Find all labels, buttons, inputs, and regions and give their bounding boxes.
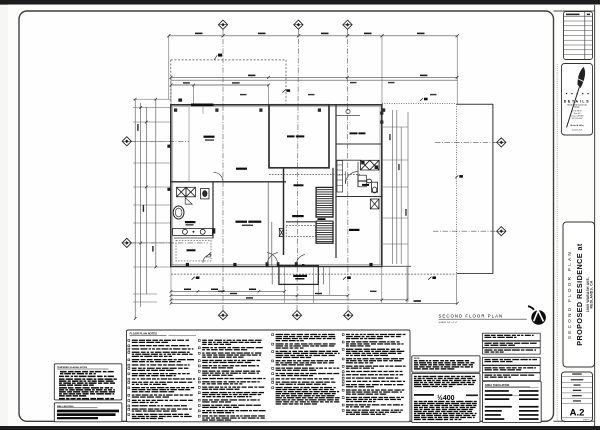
master bath wall — [336, 143, 382, 145]
bed5 closet line — [188, 107, 190, 182]
exterior wall left — [170, 104, 172, 267]
gridline C — [347, 29, 350, 310]
corridor door arc — [345, 172, 357, 184]
washer dryer — [358, 175, 369, 187]
wall backing box — [54, 403, 122, 422]
gridline F right — [435, 141, 497, 143]
svg-text:A.2: A.2 — [570, 408, 585, 419]
header beam mark on top wall — [191, 104, 214, 107]
master bath label — [185, 221, 196, 223]
misc dim labels — [240, 94, 247, 95]
right balcony outer wall — [492, 104, 494, 274]
interior dim chains — [392, 110, 394, 264]
right balcony top edge — [457, 103, 493, 105]
bath2 toilet — [372, 182, 378, 193]
exterior wall right — [381, 104, 383, 266]
gridline G right — [433, 230, 497, 232]
svg-text:2: 2 — [564, 419, 565, 421]
tempered glazing notes box — [54, 364, 122, 400]
svg-text:SECOND FLOOR PLAN: SECOND FLOOR PLAN — [439, 313, 504, 318]
roof outline dashed — [171, 59, 286, 61]
top dimension drops — [168, 36, 170, 99]
walk-in closet dashed — [176, 240, 211, 261]
interior corridor wall — [171, 181, 286, 183]
exterior wall bottom — [170, 266, 382, 268]
cabinet x-boxes — [361, 160, 380, 170]
svg-text:SHEETS: SHEETS — [583, 419, 589, 421]
balcony door jambs — [266, 262, 269, 266]
svg-text:951-555-2525: 951-555-2525 — [572, 130, 583, 132]
toilet — [201, 188, 209, 199]
bath partition wall — [212, 182, 214, 238]
wic label — [187, 249, 196, 251]
left dimension lines — [134, 99, 136, 319]
svg-text:Design: Design — [574, 107, 579, 109]
balcony drop lines — [317, 284, 319, 295]
notes column 3 — [272, 334, 340, 405]
exterior wall top — [170, 104, 382, 106]
window markers — [174, 108, 177, 111]
sheet title box — [563, 222, 595, 367]
bottom black bar — [0, 426, 600, 430]
bath2 sink oval — [367, 179, 372, 183]
wall spec note boxes — [483, 357, 541, 380]
balcony door arcs — [267, 253, 278, 264]
mstr bath counter — [336, 115, 360, 117]
svg-text:PROPOSED RESIDENCE at: PROPOSED RESIDENCE at — [575, 243, 584, 346]
notes column 1 — [128, 340, 195, 420]
vanity double sink — [173, 228, 216, 235]
bath tub oval — [173, 206, 184, 219]
right wing wall — [335, 105, 337, 258]
8ft labels — [287, 89, 291, 92]
svg-text:(951) 555-0157: (951) 555-0157 — [572, 118, 583, 120]
roofline dotted top — [382, 103, 457, 105]
grid diamonds — [218, 20, 227, 29]
hall dashed line — [269, 174, 360, 176]
hall door arc — [214, 172, 224, 182]
attic access dashed — [286, 226, 315, 237]
second dimension lines — [171, 76, 457, 78]
bath2 wall — [336, 196, 382, 198]
svg-text:FLOOR PLAN NOTES: FLOOR PLAN NOTES — [130, 332, 158, 336]
notes column 2 — [198, 340, 265, 421]
svg-text:DETAILS: DETAILS — [564, 99, 591, 103]
title block frame lines — [554, 10, 595, 12]
hall labels — [294, 184, 304, 186]
gridline A — [222, 29, 224, 310]
open-to-below room walls — [269, 105, 329, 168]
stamp logo — [528, 306, 546, 325]
svg-text:REDLANDS, CA: REDLANDS, CA — [589, 280, 593, 308]
hall lower walls — [286, 221, 315, 223]
bottom wall extension — [382, 265, 411, 267]
balcony walls — [279, 266, 318, 285]
right balcony bottom edge — [457, 273, 493, 275]
svg-text:SCALE: 1/4" = 1'-0": SCALE: 1/4" = 1'-0" — [439, 321, 458, 324]
door post x-box — [279, 228, 283, 236]
right wall window markers — [380, 112, 383, 115]
middle notes box lower — [412, 373, 480, 422]
notes column 4 — [342, 334, 405, 415]
svg-text:Michael A. Maley: Michael A. Maley — [570, 124, 584, 127]
room labels — [204, 136, 215, 138]
floor plan notes box — [127, 330, 411, 422]
gridline D left — [131, 140, 190, 142]
wic door arc — [203, 254, 212, 262]
designer logo box — [562, 64, 593, 136]
vertical license text line — [556, 64, 558, 420]
bottom drop lines — [170, 267, 172, 303]
svg-text:SECOND FLOOR PLAN: SECOND FLOOR PLAN — [567, 250, 572, 339]
stair — [316, 187, 334, 243]
sheet number box — [562, 372, 593, 422]
interior wall stair side — [332, 168, 334, 188]
linen x-box — [370, 199, 379, 209]
bottom dimension lines — [171, 290, 285, 292]
right balcony dotted edge — [456, 104, 458, 274]
insulation note boxes — [483, 333, 541, 354]
paper right edge — [594, 5, 596, 426]
long dashed line lower — [171, 273, 456, 275]
middle notes box upper — [412, 356, 480, 372]
svg-text:NOTE:: NOTE: — [414, 358, 420, 360]
balcony label — [293, 275, 307, 277]
revisions table — [564, 12, 593, 60]
plan group — [122, 20, 506, 320]
svg-text:AREA TABULATION: AREA TABULATION — [485, 383, 510, 387]
area tabulation box — [483, 381, 542, 422]
gridline B — [297, 29, 298, 310]
gridline E left — [131, 242, 209, 244]
stair closet shelves — [337, 161, 343, 193]
top black bar — [0, 0, 600, 5]
top dimension line — [169, 35, 457, 37]
interior wall vertical hall — [283, 168, 285, 256]
shower x-boxes — [177, 187, 196, 204]
